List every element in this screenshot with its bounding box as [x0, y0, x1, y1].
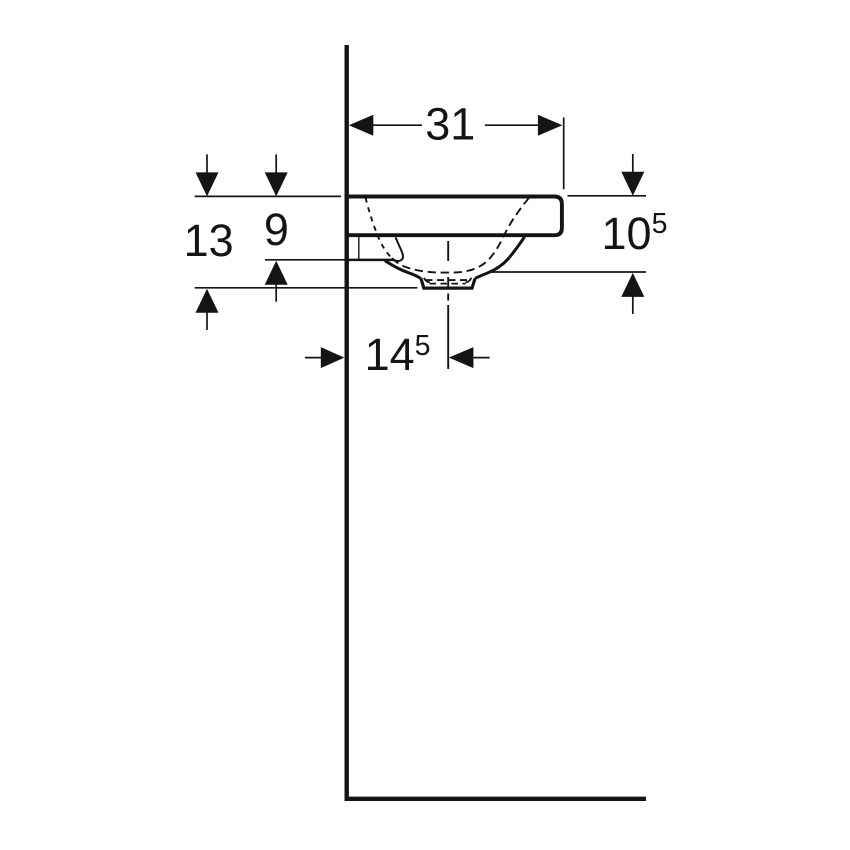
extension line 31 right	[563, 118, 565, 190]
drain flange right	[465, 278, 471, 283]
drain flange left	[424, 278, 430, 283]
extension line top right	[568, 195, 647, 197]
extension line drain bottom	[195, 287, 418, 289]
drain hidden line upper	[426, 279, 470, 281]
dimension 145 left arrow	[321, 347, 345, 368]
dimension 31 left arrow	[349, 115, 374, 136]
top datum arrow tail at 13	[206, 154, 208, 173]
dimension 145 right arrow	[449, 347, 474, 368]
svg-text:31: 31	[425, 99, 475, 150]
svg-text:9: 9	[264, 204, 289, 255]
lower arrow of 13	[196, 289, 219, 313]
dimension 31 right tail	[485, 124, 539, 126]
mounting ledge bottom	[348, 259, 394, 262]
lower arrow tail of 9	[275, 284, 277, 302]
centerline	[447, 241, 449, 369]
washbasin rim outline	[349, 197, 562, 236]
dimension 145 left tail	[305, 357, 321, 359]
lower arrow tail of 13	[206, 312, 208, 330]
washbasin inner bowl hidden line main	[391, 198, 529, 273]
top datum arrow tail at 9	[275, 154, 277, 173]
lower arrow tail of 105	[632, 296, 634, 314]
drain outlet	[421, 278, 475, 288]
wall line	[345, 45, 349, 801]
extension line ledge level	[265, 259, 345, 261]
dimension 31 left tail	[373, 124, 422, 126]
top datum arrow at 9	[265, 172, 288, 196]
lower arrow of 105	[621, 273, 644, 297]
bowl outer profile right	[475, 237, 525, 279]
svg-text:13: 13	[184, 215, 234, 266]
dimension 145 right tail	[473, 357, 490, 359]
lower arrow of 9	[265, 261, 288, 285]
top datum arrow right	[621, 172, 644, 196]
extension line bowl bottom right	[490, 271, 647, 273]
floor line	[345, 797, 647, 801]
overflow channel hook	[393, 237, 403, 261]
dimension 31 right arrow	[538, 115, 563, 136]
extension line top left	[195, 195, 341, 197]
top datum arrow tail right	[632, 154, 634, 172]
washbasin inner bowl hidden line left	[366, 198, 392, 257]
bowl outer profile left	[385, 261, 421, 279]
drain hidden line lower	[430, 283, 466, 285]
top datum arrow at 13	[196, 172, 219, 196]
ledge tick	[358, 237, 360, 260]
